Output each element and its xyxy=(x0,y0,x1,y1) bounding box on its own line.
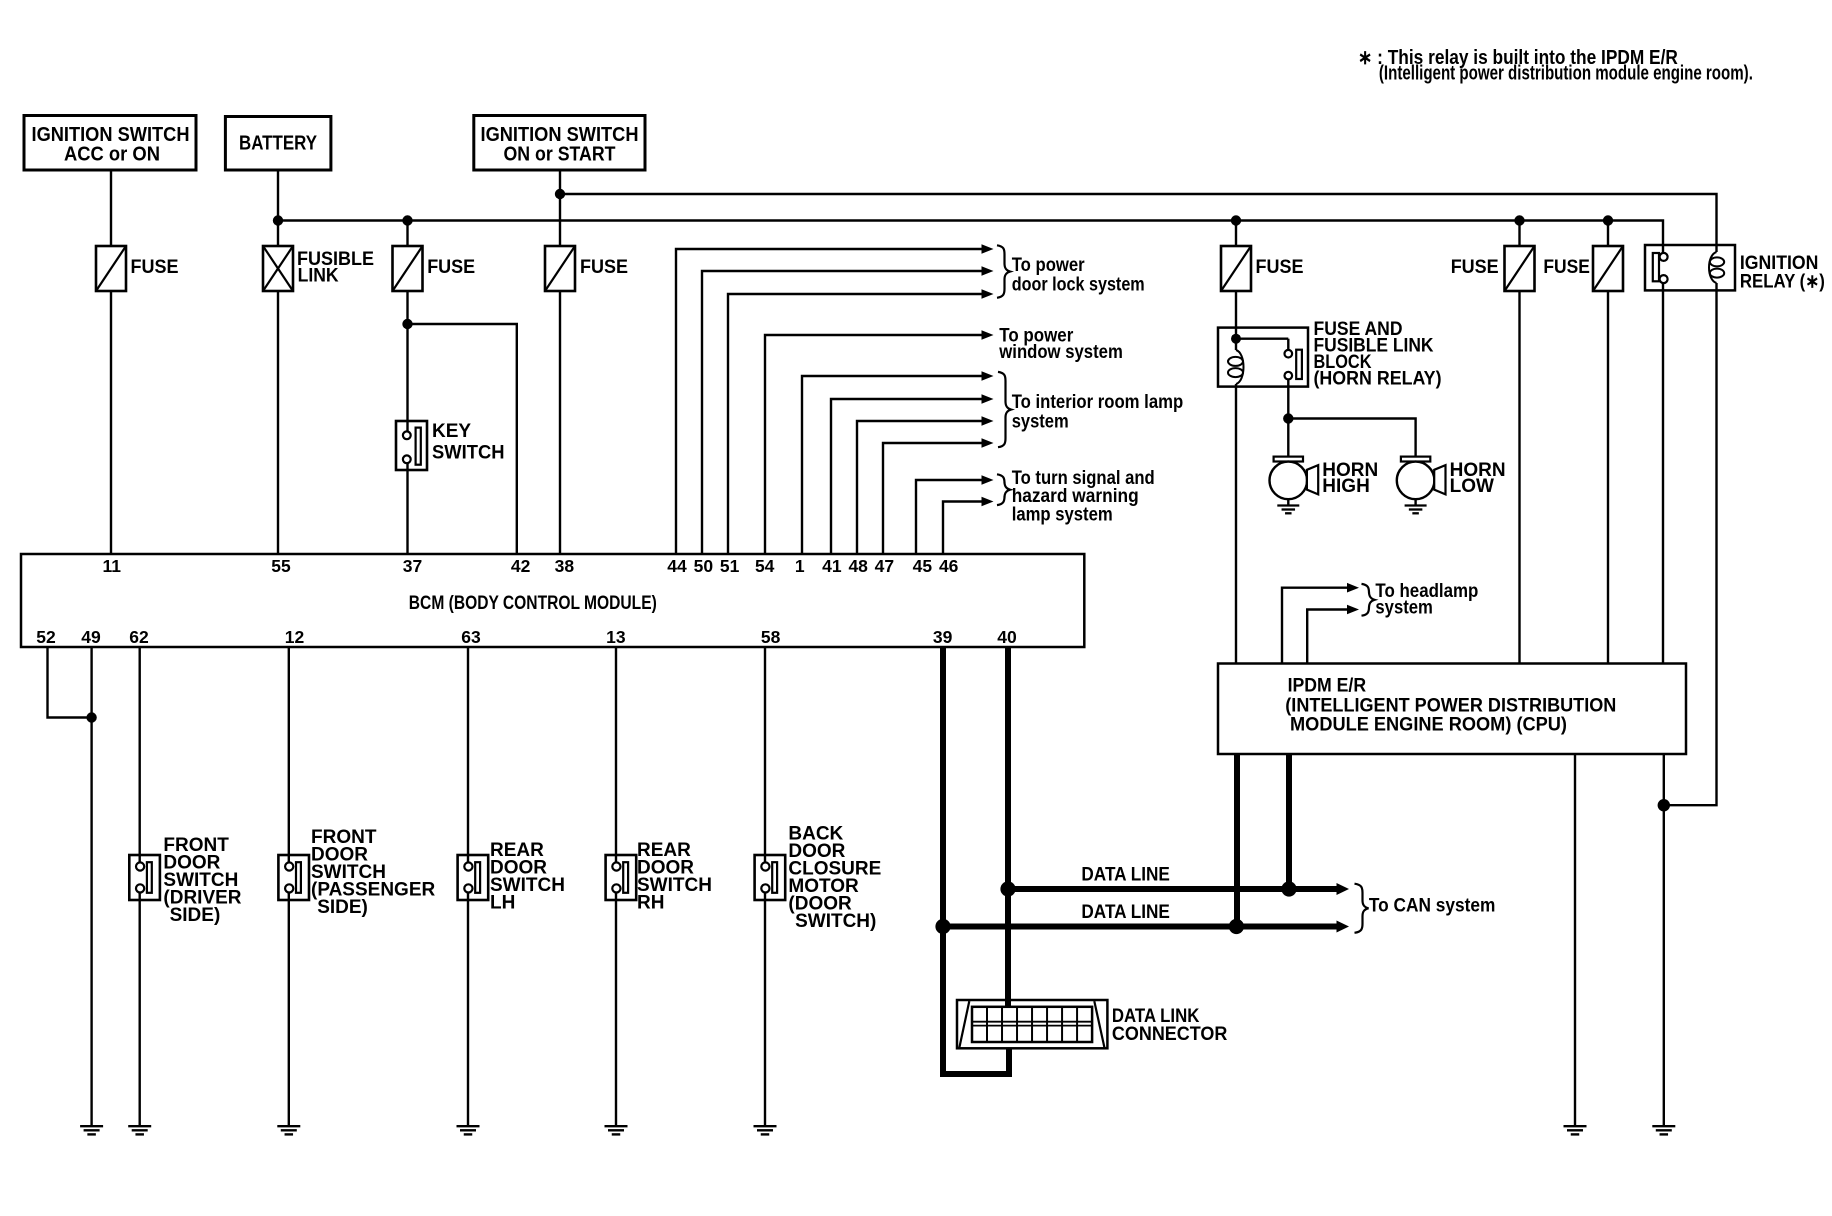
svg-text:ON or START: ON or START xyxy=(504,144,616,166)
svg-text:40: 40 xyxy=(997,627,1017,647)
svg-text:12: 12 xyxy=(285,627,305,647)
svg-text:HIGH: HIGH xyxy=(1322,476,1370,497)
svg-text:FUSE: FUSE xyxy=(1543,257,1590,278)
svg-text:ACC or ON: ACC or ON xyxy=(64,144,160,166)
svg-text:LINK: LINK xyxy=(298,266,339,287)
svg-text:FUSE: FUSE xyxy=(1451,257,1499,278)
svg-text:FUSE: FUSE xyxy=(131,257,179,278)
svg-text:FUSE: FUSE xyxy=(427,257,475,278)
svg-text:52: 52 xyxy=(36,627,56,647)
svg-text:IPDM E/R: IPDM E/R xyxy=(1288,676,1367,697)
svg-text:BCM (BODY CONTROL MODULE): BCM (BODY CONTROL MODULE) xyxy=(409,593,657,614)
svg-text:13: 13 xyxy=(606,627,626,647)
svg-text:window system: window system xyxy=(998,342,1122,363)
svg-text:To interior room lamp: To interior room lamp xyxy=(1012,392,1183,413)
svg-text:MODULE ENGINE ROOM) (CPU): MODULE ENGINE ROOM) (CPU) xyxy=(1290,715,1567,736)
svg-text:42: 42 xyxy=(511,556,531,576)
svg-text:11: 11 xyxy=(102,556,121,576)
svg-text:DATA LINE: DATA LINE xyxy=(1081,865,1170,886)
svg-text:LH: LH xyxy=(490,893,515,914)
svg-text:44: 44 xyxy=(667,556,687,576)
svg-text:41: 41 xyxy=(822,556,842,576)
svg-text:FUSE: FUSE xyxy=(1256,257,1304,278)
svg-text:48: 48 xyxy=(848,556,868,576)
svg-text:SIDE): SIDE) xyxy=(317,897,368,918)
svg-text:KEY: KEY xyxy=(432,421,471,442)
svg-text:38: 38 xyxy=(555,556,575,576)
svg-text:RELAY (∗): RELAY (∗) xyxy=(1740,272,1825,293)
svg-text:63: 63 xyxy=(461,627,481,647)
svg-text:1: 1 xyxy=(795,556,805,576)
svg-text:LOW: LOW xyxy=(1450,476,1494,497)
svg-text:RH: RH xyxy=(637,893,664,914)
svg-text:DATA LINE: DATA LINE xyxy=(1081,902,1170,923)
svg-text:47: 47 xyxy=(875,556,894,576)
svg-text:37: 37 xyxy=(403,556,422,576)
svg-text:51: 51 xyxy=(720,556,740,576)
svg-text:49: 49 xyxy=(81,627,101,647)
svg-text:SWITCH: SWITCH xyxy=(432,443,505,464)
svg-text:(Intelligent power distributio: (Intelligent power distribution module e… xyxy=(1379,63,1753,85)
svg-text:system: system xyxy=(1012,412,1069,433)
svg-text:CONNECTOR: CONNECTOR xyxy=(1112,1024,1228,1045)
svg-text:54: 54 xyxy=(755,556,775,576)
svg-text:FUSE: FUSE xyxy=(580,257,628,278)
svg-text:BATTERY: BATTERY xyxy=(239,133,318,155)
svg-text:SWITCH): SWITCH) xyxy=(795,911,876,932)
svg-text:62: 62 xyxy=(129,627,149,647)
svg-text:(INTELLIGENT POWER DISTRIBUTIO: (INTELLIGENT POWER DISTRIBUTION xyxy=(1285,696,1616,717)
svg-text:To CAN system: To CAN system xyxy=(1369,895,1496,916)
svg-text:58: 58 xyxy=(761,627,781,647)
svg-text:SIDE): SIDE) xyxy=(170,905,221,926)
svg-text:(HORN RELAY): (HORN RELAY) xyxy=(1314,369,1442,390)
svg-text:39: 39 xyxy=(933,627,953,647)
svg-text:lamp system: lamp system xyxy=(1012,505,1113,526)
svg-text:45: 45 xyxy=(913,556,933,576)
svg-text:46: 46 xyxy=(939,556,959,576)
svg-text:door lock system: door lock system xyxy=(1012,275,1145,296)
svg-text:50: 50 xyxy=(694,556,714,576)
svg-text:system: system xyxy=(1375,598,1433,619)
svg-text:55: 55 xyxy=(271,556,291,576)
svg-text:To power: To power xyxy=(1012,255,1086,276)
